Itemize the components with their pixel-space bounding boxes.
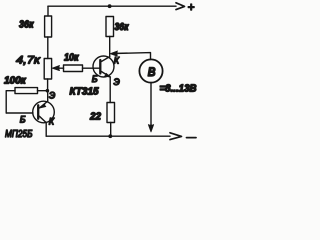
collector Q1 bbox=[101, 57, 109, 62]
arrowhead probe left bbox=[110, 51, 117, 56]
transistor Q1 KT315 body bbox=[93, 56, 114, 77]
wire R3 right lead bbox=[38, 90, 48, 92]
arrowhead - rail bbox=[170, 133, 182, 140]
wire emitter Q2 up to junction A bbox=[47, 91, 49, 102]
wire meter bottom probe bbox=[150, 83, 152, 130]
wire bottom rail (-) bbox=[46, 135, 170, 137]
svg-text:=8...13В: =8...13В bbox=[160, 84, 197, 95]
wire left branch top bbox=[47, 6, 49, 16]
svg-text:100к: 100к bbox=[4, 76, 27, 87]
svg-text:36к: 36к bbox=[115, 21, 130, 33]
transistor Q2 MP25B body bbox=[33, 101, 55, 123]
resistor R4 36k body bbox=[106, 17, 114, 37]
wire collector Q2 down to rail bbox=[45, 123, 47, 137]
resistor R6 10k body bbox=[64, 65, 83, 72]
node top junction bbox=[108, 4, 112, 8]
svg-text:К: К bbox=[49, 117, 55, 127]
wire R1 to pot bbox=[47, 37, 49, 59]
arrowhead probe down bbox=[148, 125, 153, 132]
voltmeter PV1 body bbox=[139, 59, 162, 82]
svg-text:Э: Э bbox=[49, 91, 55, 101]
wire R3 left lead + down bbox=[6, 91, 15, 113]
node junction A bbox=[46, 89, 50, 93]
wire emitter Q1 to R5 bbox=[109, 77, 111, 103]
resistor R1 36k body bbox=[45, 16, 52, 37]
svg-text:4,7к: 4,7к bbox=[16, 55, 41, 67]
wire pot bottom to junction bbox=[47, 79, 49, 91]
wire R4 to collector Q1 bbox=[109, 37, 111, 58]
wire meter top probe bbox=[113, 53, 151, 60]
svg-text:22: 22 bbox=[89, 111, 101, 123]
svg-text:МП25Б: МП25Б bbox=[5, 129, 33, 140]
svg-text:Б: Б bbox=[92, 74, 98, 84]
wire top rail (+) bbox=[48, 5, 176, 7]
node bottom junction bbox=[108, 134, 112, 138]
svg-text:10к: 10к bbox=[64, 53, 79, 64]
svg-text:Б: Б bbox=[20, 115, 26, 125]
base wire Q1 bbox=[83, 67, 101, 69]
svg-text:В: В bbox=[148, 65, 156, 79]
svg-text:+: + bbox=[188, 0, 195, 14]
svg-text:36к: 36к bbox=[19, 19, 34, 31]
wire base lead Q2 bbox=[6, 112, 33, 114]
wire R5 to rail bbox=[110, 123, 112, 137]
collector Q2 bbox=[39, 116, 46, 122]
trimmer R2 4,7k body bbox=[44, 59, 51, 80]
svg-text:КТ315: КТ315 bbox=[70, 87, 100, 98]
wire R6 left lead with wiper arrow bbox=[55, 67, 64, 69]
resistor R5 22 body bbox=[107, 103, 115, 123]
resistor R3 100k body bbox=[15, 88, 38, 94]
emitter Q1 with outward arrow (NPN) bbox=[101, 72, 110, 78]
arrowhead + rail bbox=[176, 3, 185, 10]
svg-text:К: К bbox=[114, 56, 120, 66]
label minus bbox=[187, 137, 197, 139]
emitter Q2 with arrow to base (PNP) bbox=[39, 101, 47, 108]
svg-text:Э: Э bbox=[114, 77, 120, 87]
